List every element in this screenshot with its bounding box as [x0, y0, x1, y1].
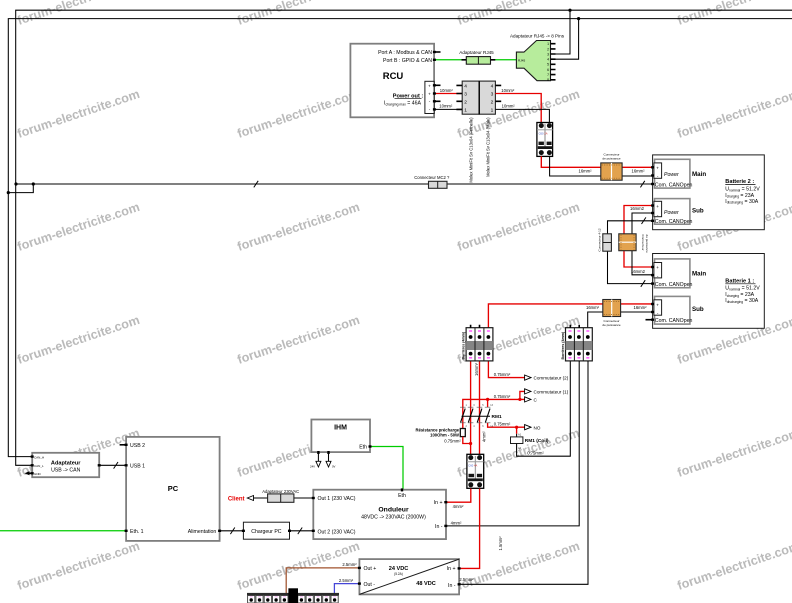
wire red fuse1 pole1 down to breaker Q2 — [470, 361, 472, 454]
wire blue converter out- to terminal strip — [334, 584, 359, 593]
svg-text:PC: PC — [168, 484, 179, 493]
svg-text:RCU: RCU — [383, 71, 404, 82]
svg-text:In -: In - — [435, 524, 443, 530]
inverter Onduleur — [313, 490, 446, 539]
svg-text:C: C — [534, 398, 538, 403]
svg-text:forum-electricite.com: forum-electricite.com — [676, 426, 792, 480]
svg-text:4: 4 — [547, 58, 549, 62]
wire red fuse1 pole2 down to breaker Q2 — [479, 361, 481, 454]
wire red Molex pin3 to breaker Q1 — [495, 94, 541, 123]
wire red to RM1 coil A1 — [516, 427, 518, 434]
svg-text:4mm²: 4mm² — [453, 504, 464, 509]
slash mark on b2 sub com — [642, 217, 646, 224]
svg-text:Com. CANOpen: Com. CANOpen — [655, 219, 693, 225]
svg-text:2: 2 — [466, 425, 468, 428]
battery pack Batterie 2 — [653, 155, 765, 230]
svg-text:4mm²: 4mm² — [451, 521, 462, 526]
svg-text:Out 2 (230 VAC): Out 2 (230 VAC) — [318, 529, 356, 535]
wire green PC eth1 from left edge — [0, 530, 126, 532]
wire CAN bus horizontal to batteries — [16, 183, 653, 185]
svg-text:4mm²: 4mm² — [481, 431, 486, 442]
svg-text:de puissance: de puissance — [602, 156, 621, 160]
svg-text:In -: In - — [448, 583, 456, 589]
svg-text:1: 1 — [464, 107, 467, 113]
battery pack Batterie 1 — [653, 254, 765, 329]
svg-text:10mm²: 10mm² — [502, 104, 516, 109]
svg-text:Out -: Out - — [364, 582, 376, 588]
wire black battery1 sub - to fuse block 2 — [588, 312, 653, 328]
svg-text:4: 4 — [473, 425, 475, 428]
pin RCU Port A stub — [434, 51, 440, 53]
svg-text:Commutateur (2): Commutateur (2) — [534, 376, 569, 381]
svg-text:+: + — [428, 83, 431, 88]
contactor RM1 contacts — [460, 404, 502, 428]
wire black chargeur to onduleur out2 — [290, 530, 314, 532]
svg-text:forum-electricite.com: forum-electricite.com — [16, 200, 142, 254]
svg-text:0.75mm²: 0.75mm² — [444, 438, 461, 443]
svg-text:+: + — [656, 165, 659, 170]
svg-text:16mm²: 16mm² — [474, 362, 479, 376]
svg-text:Onduleur: Onduleur — [378, 506, 409, 513]
RCU U1 — [350, 44, 434, 118]
svg-text:3: 3 — [464, 92, 467, 98]
svg-text:0.75mm²: 0.75mm² — [494, 422, 511, 427]
slash mark on b1 main com — [641, 280, 645, 287]
svg-text:+: + — [656, 204, 659, 209]
svg-text:Molex MiniFit Sv C13x04 (Male): Molex MiniFit Sv C13x04 (Male) — [486, 117, 491, 177]
slash mark on CAN wire right — [640, 181, 644, 188]
svg-text:16mm2: 16mm2 — [630, 206, 645, 211]
wire CAN jog to left bus — [8, 184, 33, 193]
wire black Molex pin1 to breaker Q1 — [495, 109, 549, 122]
adapter RJ45 to 8 pins U2 — [510, 33, 565, 82]
svg-text:4: 4 — [491, 83, 494, 89]
connector C3 puissance batterie1 sub — [602, 300, 621, 327]
svg-text:Adaptateur 230VAC: Adaptateur 230VAC — [262, 489, 299, 494]
svg-text:forum-electricite.com: forum-electricite.com — [236, 200, 362, 254]
svg-text:Out 1 (230 VAC): Out 1 (230 VAC) — [318, 496, 356, 502]
breaker Q1 2-pole — [537, 123, 553, 157]
wire brown converter out+ to terminal strip — [286, 568, 359, 593]
ground arrow IHM 1 — [310, 452, 321, 469]
svg-text:1: 1 — [466, 404, 468, 407]
svg-text:RJ45: RJ45 — [518, 58, 526, 62]
svg-text:Main: Main — [692, 270, 706, 277]
svg-text:A2: A2 — [518, 446, 522, 450]
svg-text:0.75mm²: 0.75mm² — [527, 450, 544, 455]
arrow C — [525, 397, 538, 403]
svg-text:Eth. 1: Eth. 1 — [130, 529, 144, 535]
svg-text:C60 2A: C60 2A — [539, 131, 548, 135]
node junction top bus 1 — [568, 9, 571, 12]
pin PC usb2 stub — [120, 444, 127, 446]
wire red breaker Q2 to converter in+ — [459, 489, 480, 569]
slash mark chargeur out — [298, 528, 302, 535]
svg-text:forum-electricite.com: forum-electricite.com — [676, 539, 792, 593]
svg-text:Sub: Sub — [692, 208, 704, 215]
node junction C branch — [518, 398, 521, 401]
wire black coil A1 stub — [516, 434, 518, 437]
svg-text:3: 3 — [547, 52, 549, 56]
svg-text:24V: 24V — [310, 465, 315, 469]
svg-text:forum-electricite.com: forum-electricite.com — [236, 0, 362, 28]
wire CAN bus top line 2 (CAN_H net) — [8, 19, 792, 457]
arrow commutateur 2 — [525, 375, 569, 381]
wire adapter USB to PC usb1 — [99, 464, 126, 466]
wire RJ45 pin4 to top bus — [551, 19, 579, 60]
svg-text:4: 4 — [464, 83, 467, 89]
svg-text:0V: 0V — [332, 465, 336, 469]
svg-text:6: 6 — [547, 68, 549, 72]
svg-text:Main: Main — [692, 171, 706, 178]
svg-text:16mm²: 16mm² — [633, 305, 647, 310]
svg-text:0.75mm²: 0.75mm² — [494, 394, 511, 399]
svg-text:8: 8 — [547, 78, 549, 82]
svg-text:48 VDC: 48 VDC — [416, 581, 436, 587]
computer PC — [126, 437, 220, 541]
svg-text:Power: Power — [664, 210, 679, 216]
svg-text:Port B : GPIO & CAN: Port B : GPIO & CAN — [383, 58, 432, 64]
svg-text:Com. CANOpen: Com. CANOpen — [655, 182, 693, 188]
svg-text:Commutateur (1): Commutateur (1) — [534, 390, 569, 395]
svg-text:3: 3 — [473, 404, 475, 407]
svg-text:2.5mm²: 2.5mm² — [459, 577, 474, 582]
adapter 230VAC connector — [262, 489, 299, 502]
slash mark usb wire — [114, 462, 118, 469]
node junction CAN jog left — [7, 191, 10, 194]
svg-text:forum-electricite.com: forum-electricite.com — [16, 87, 142, 141]
svg-text:Idischarging = 30A: Idischarging = 30A — [725, 298, 758, 304]
svg-text:10mm²: 10mm² — [501, 88, 515, 93]
svg-text:IHM: IHM — [334, 425, 347, 432]
node junction contact4 top — [486, 398, 489, 401]
node junction CAN at x16 — [14, 182, 17, 185]
wire CAN bus top line 1 (CAN_L net) — [16, 10, 792, 465]
svg-text:1.5mm²: 1.5mm² — [498, 536, 503, 551]
pin RCU power + stub — [434, 84, 440, 86]
svg-text:2: 2 — [464, 99, 467, 105]
svg-text:Molex MiniFit Sv C13x04 (Femel: Molex MiniFit Sv C13x04 (Femelle) — [469, 117, 474, 183]
svg-text:CAN_H: CAN_H — [34, 455, 44, 459]
svg-text:100Ohm - 50W: 100Ohm - 50W — [430, 432, 459, 437]
svg-text:Unominal = 51.2V: Unominal = 51.2V — [725, 286, 760, 292]
svg-text:Port A : Modbus & CAN: Port A : Modbus & CAN — [378, 50, 432, 56]
svg-text:Adaptateur: Adaptateur — [51, 460, 81, 466]
svg-text:Unominal = 51.2V: Unominal = 51.2V — [725, 187, 760, 193]
connector C2 puissance vertical — [619, 234, 649, 253]
wire black breaker to battery2 main - — [550, 156, 653, 176]
svg-text:forum-electricite.com: forum-electricite.com — [236, 87, 362, 141]
svg-text:A1: A1 — [518, 433, 522, 437]
pin GND arrow stub — [25, 471, 33, 475]
wire black battery2 sub - — [632, 213, 653, 275]
wire red breaker to battery2 main + — [541, 156, 652, 167]
fuse block F1 barrieres — [461, 325, 493, 361]
relay RM1 coil — [511, 433, 549, 450]
svg-text:6: 6 — [482, 425, 484, 428]
svg-text:Out +: Out + — [364, 566, 377, 572]
svg-text:10mm²: 10mm² — [440, 88, 454, 93]
svg-text:1: 1 — [547, 42, 549, 46]
wire red NO output — [488, 423, 525, 427]
svg-text:Eth: Eth — [398, 493, 406, 499]
svg-text:3: 3 — [491, 92, 494, 98]
pin RCU power - stub — [434, 100, 440, 102]
svg-text:Com. CANOpen: Com. CANOpen — [655, 282, 693, 288]
svg-text:CAN_L: CAN_L — [34, 464, 44, 468]
wire client to onduleur out1 — [254, 497, 314, 499]
svg-text:de puissance: de puissance — [602, 323, 621, 327]
svg-text:forum-electricite.com: forum-electricite.com — [676, 0, 792, 28]
svg-text:2: 2 — [547, 47, 549, 51]
svg-text:In +: In + — [447, 566, 456, 572]
svg-text:Alimentation: Alimentation — [188, 529, 217, 535]
svg-text:0.75mm²: 0.75mm² — [494, 372, 511, 377]
adapter USB to CAN — [32, 453, 99, 477]
connector Molex MiniFit male — [479, 81, 501, 177]
node junction CAN jog top — [32, 182, 35, 185]
svg-text:forum-electricite.com: forum-electricite.com — [16, 313, 142, 367]
wire red battery2 sub + — [624, 206, 653, 268]
svg-text:forum-electricite.com: forum-electricite.com — [676, 87, 792, 141]
wire red fuse1 pole3 to commutateur 2 — [488, 361, 525, 378]
svg-text:10mm²: 10mm² — [439, 104, 453, 109]
svg-text:forum-electricite.com: forum-electricite.com — [16, 0, 142, 28]
wire red branch commutateur 1 — [520, 391, 525, 399]
wire black PC alimentation to chargeur — [220, 530, 244, 532]
terminal strip — [247, 588, 339, 603]
svg-text:2.5mm²: 2.5mm² — [339, 578, 354, 583]
arrow client — [247, 496, 253, 501]
fuse block F2 barrieres — [561, 325, 593, 361]
wire black battery2 sub com to battery1 main com — [608, 221, 653, 284]
svg-text:16mm²: 16mm² — [586, 305, 600, 310]
svg-text:USB 1: USB 1 — [130, 464, 145, 470]
svg-text:Connecteur MC2 ?: Connecteur MC2 ? — [414, 175, 450, 180]
charger Chargeur PC — [243, 522, 289, 539]
svg-text:1: 1 — [491, 107, 494, 113]
svg-text:Adaptateur RJ45: Adaptateur RJ45 — [459, 50, 494, 55]
breaker Q2 2-pole C60 — [467, 454, 484, 488]
arrow NO — [525, 425, 541, 431]
svg-text:Sub: Sub — [692, 306, 704, 313]
svg-text:5: 5 — [547, 63, 549, 67]
wire black fuse2 pole3 to converter in- — [459, 361, 588, 584]
pin terminal nubs on component boxes — [31, 51, 654, 586]
svg-text:Eth: Eth — [359, 445, 367, 451]
wire red battery1 sub + long feed — [488, 304, 652, 328]
svg-text:forum-electricite.com: forum-electricite.com — [16, 539, 142, 593]
wire black fuse2 pole2 to onduleur in- — [446, 361, 579, 526]
svg-text:Barrières (4mm): Barrières (4mm) — [561, 331, 565, 359]
svg-text:5: 5 — [482, 404, 484, 407]
connector 4-12 — [598, 228, 612, 251]
wire green RCU PortB to RJ45 adapter — [434, 59, 516, 61]
converter 24VDC 48VDC — [359, 559, 459, 594]
svg-text:2.5mm²: 2.5mm² — [342, 562, 357, 567]
slash mark on CAN wire left — [254, 181, 258, 188]
svg-text:de puissance: de puissance — [645, 235, 649, 254]
resistor R1 precharge — [415, 428, 465, 438]
svg-text:NO: NO — [534, 425, 541, 430]
svg-text:Power: Power — [664, 172, 679, 178]
svg-text:16mm2: 16mm2 — [631, 269, 646, 274]
svg-text:Connecteur: Connecteur — [641, 235, 645, 251]
wire red contact4 drop — [487, 399, 489, 407]
svg-text:RM1 (Coil): RM1 (Coil) — [525, 438, 549, 444]
IHM display — [311, 420, 370, 453]
svg-text:+: + — [428, 92, 431, 97]
svg-text:Connecteur 4-12: Connecteur 4-12 — [598, 228, 602, 251]
node junction resistor bypass — [469, 442, 472, 445]
ground arrow IHM 2 — [326, 452, 336, 469]
svg-text:Adaptateur RJ45 -> 8 Pins: Adaptateur RJ45 -> 8 Pins — [510, 33, 565, 38]
svg-text:2: 2 — [491, 99, 494, 105]
svg-text:RM1: RM1 — [492, 414, 502, 420]
wire black coil A2 to fuse2 pole1 — [517, 361, 571, 456]
svg-text:Barrières (4mm): Barrières (4mm) — [461, 331, 465, 359]
svg-text:13: 13 — [490, 404, 493, 407]
node junction top bus 2 — [577, 17, 580, 20]
svg-text:USB -> CAN: USB -> CAN — [51, 468, 81, 474]
arrow commutateur 1 — [525, 389, 569, 395]
wire red resistor bypass — [463, 437, 471, 444]
svg-text:(5.2A): (5.2A) — [394, 572, 403, 576]
slash mark alim — [230, 528, 234, 535]
svg-text:In +: In + — [434, 500, 443, 506]
pin battery1 sub com stub — [646, 319, 653, 321]
connector Molex MiniFit femelle — [456, 81, 479, 183]
connector MC2 on CAN wire — [414, 175, 450, 188]
svg-text:48VDC -> 230VAC (2000W): 48VDC -> 230VAC (2000W) — [361, 514, 426, 520]
svg-text:USB 2: USB 2 — [130, 443, 145, 449]
svg-text:Com. CANOpen: Com. CANOpen — [655, 318, 693, 324]
svg-text:Client: Client — [228, 496, 245, 502]
wire red breaker Q2 to onduleur in+ — [446, 489, 471, 503]
wire green IHM eth to onduleur — [370, 447, 403, 490]
wire black RCU to Molex pin 1 — [434, 108, 462, 110]
adapter RJ45 small connector — [459, 50, 495, 64]
svg-text:C60 4A: C60 4A — [468, 464, 477, 468]
svg-text:16mm²: 16mm² — [578, 168, 592, 173]
svg-text:7: 7 — [547, 73, 549, 77]
wire RJ45 pin3 to top bus — [551, 10, 571, 54]
svg-text:16mm²: 16mm² — [631, 168, 645, 173]
wire red RCU to Molex pin 3 — [434, 93, 462, 95]
svg-text:+: + — [656, 265, 659, 270]
svg-text:Chargeur PC: Chargeur PC — [251, 529, 282, 535]
svg-text:forum-electricite.com: forum-electricite.com — [236, 313, 362, 367]
svg-text:Idischarging = 30A: Idischarging = 30A — [725, 199, 758, 205]
svg-text:forum-electricite.com: forum-electricite.com — [456, 0, 582, 28]
svg-text:GND: GND — [34, 472, 42, 476]
connector C1 puissance batterie2 main — [601, 152, 622, 180]
svg-text:+: + — [656, 302, 659, 307]
node junction NO coil — [515, 426, 518, 429]
svg-text:forum-electricite.com: forum-electricite.com — [456, 200, 582, 254]
wire red precharge line C — [463, 399, 525, 428]
